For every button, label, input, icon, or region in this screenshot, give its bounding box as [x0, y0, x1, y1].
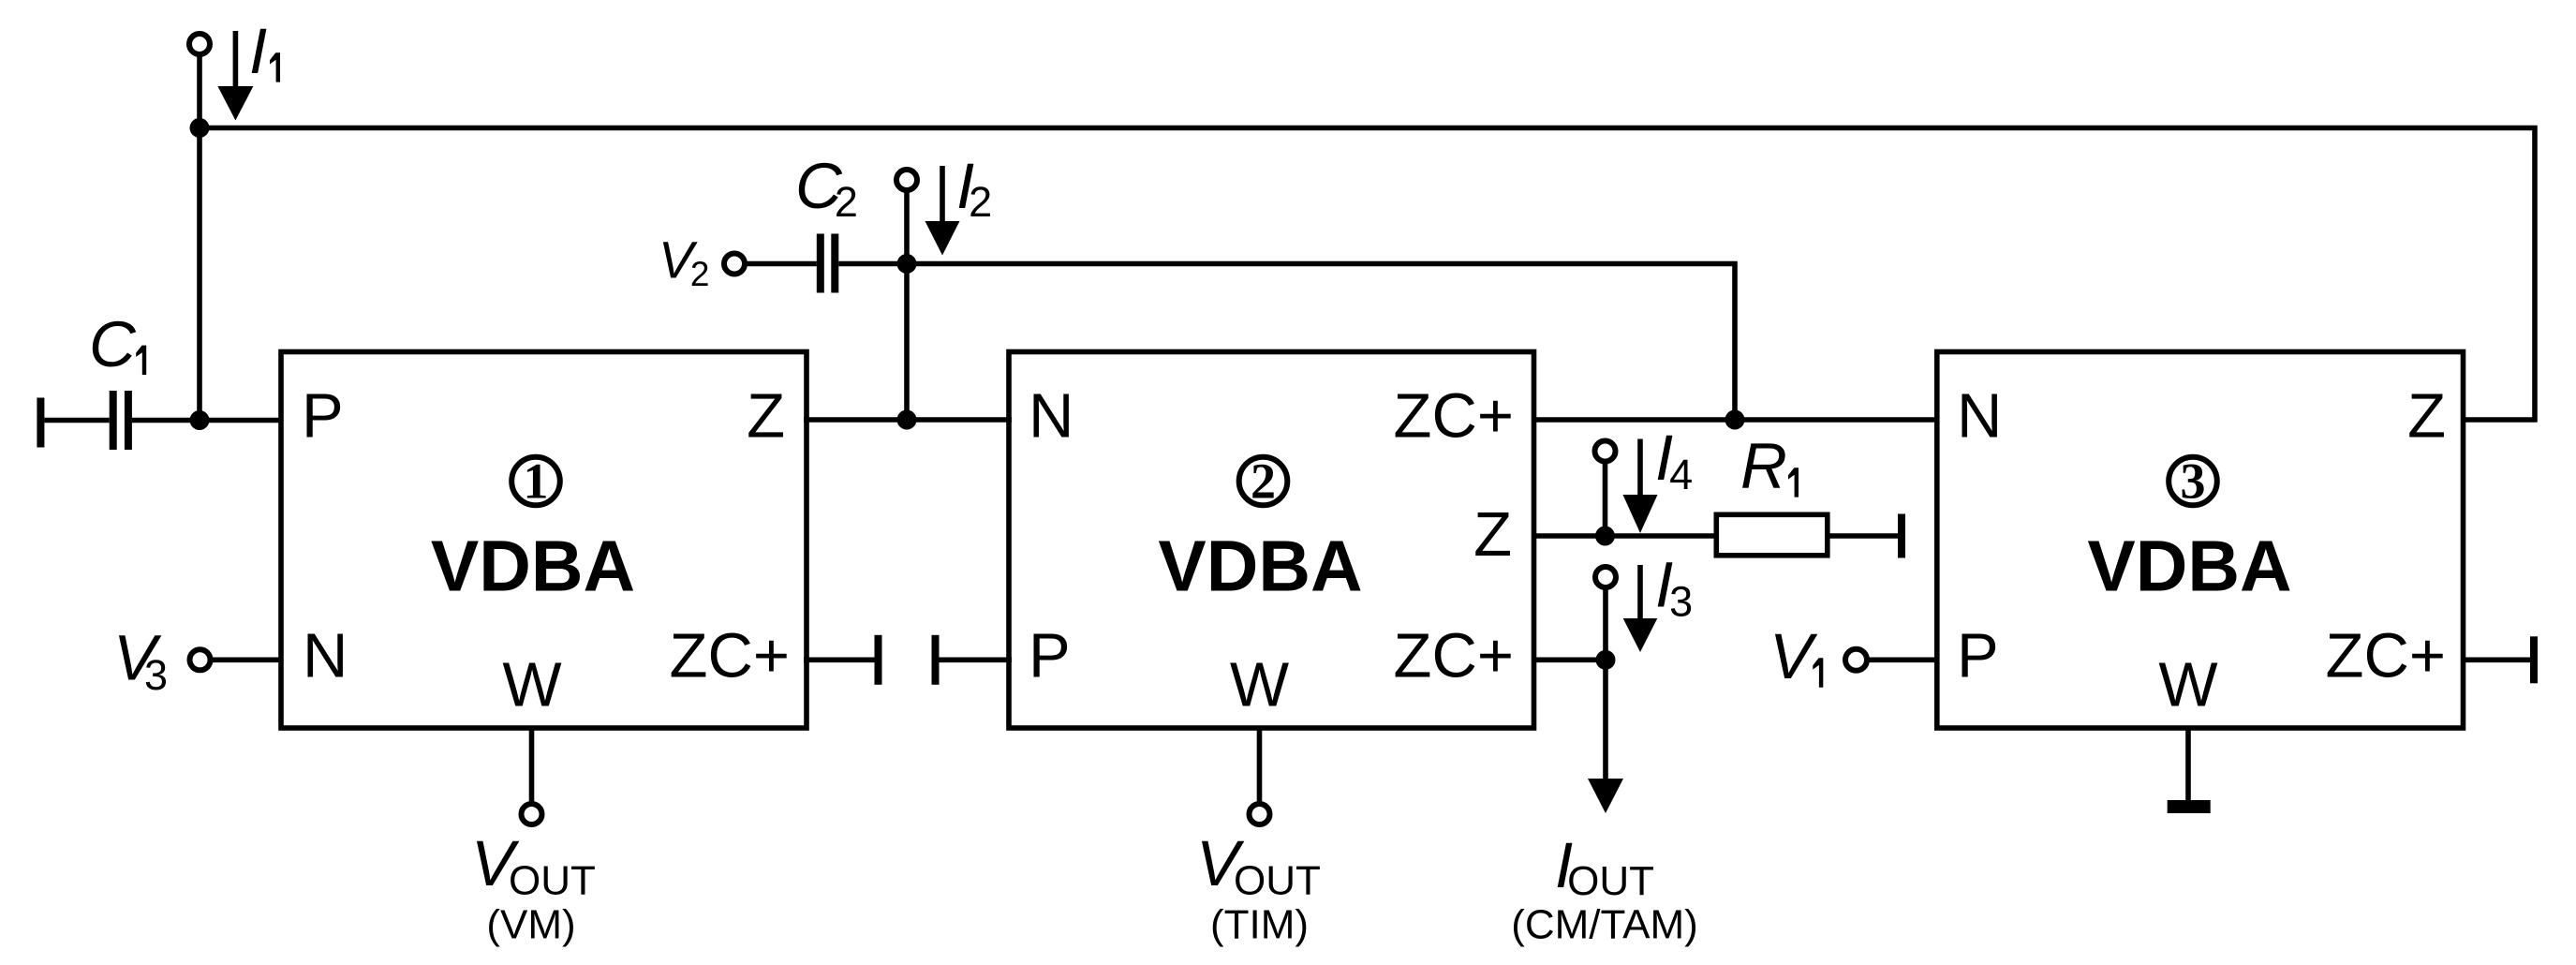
- circled number 1 U1: [511, 457, 560, 506]
- wire W pin U3 down to ground: [2185, 728, 2191, 801]
- wire I3 terminal stub to node F: [1603, 587, 1608, 660]
- wire I1 terminal stub down to node A: [197, 54, 202, 420]
- arrowhead I3: [1623, 618, 1658, 652]
- svg-text:Z: Z: [1473, 499, 1512, 570]
- svg-text:VDBA: VDBA: [2087, 527, 2291, 607]
- svg-text:2: 2: [1251, 453, 1276, 510]
- wire W pin U1 down to VOUT terminal: [529, 728, 535, 802]
- junction node C at C2 rail: [897, 254, 917, 274]
- svg-text:W: W: [2158, 650, 2218, 720]
- wire V2 terminal to capacitor C2: [745, 261, 817, 267]
- svg-text:(CM/TAM): (CM/TAM): [1511, 902, 1698, 948]
- wire Z pin U1 to N pin U2: [804, 417, 1012, 423]
- resistor R1 body: [1716, 514, 1828, 556]
- terminal circle I1: [189, 34, 210, 54]
- svg-text:N: N: [303, 621, 348, 691]
- terminal circle I4: [1595, 441, 1616, 462]
- wire ZC+ pin U1 to terminal bar: [804, 657, 875, 662]
- VDBA box U1: [281, 352, 807, 729]
- svg-text:VDBA: VDBA: [431, 527, 635, 607]
- capacitor C1 plates: [110, 391, 117, 450]
- junction node F on ZC+2b wire: [1596, 650, 1616, 670]
- svg-text:VDBA: VDBA: [1158, 527, 1362, 607]
- wire Z pin U2 to resistor R1: [1532, 533, 1714, 539]
- terminal circle I3: [1595, 567, 1616, 587]
- svg-text:N: N: [1029, 381, 1073, 452]
- VDBA box U2: [1009, 352, 1534, 729]
- wire I4 terminal stub to node E: [1603, 461, 1608, 536]
- VDBA box U3: [1937, 352, 2464, 729]
- terminal bar right of ZC+ U3: [2530, 636, 2538, 683]
- wire capacitor C1 to P pin of U1: [132, 418, 283, 423]
- svg-text:P: P: [1957, 621, 1999, 691]
- wire I2 terminal down to node B on Z1-N2 wire: [904, 190, 910, 420]
- terminal circle VOUT VM: [522, 804, 542, 824]
- svg-text:N: N: [1957, 381, 2002, 452]
- arrowhead I4: [1623, 495, 1658, 533]
- svg-text:C: C: [89, 308, 137, 380]
- arrowhead I1: [217, 86, 253, 121]
- arrowhead IOUT: [1588, 779, 1623, 813]
- svg-text:(TIM): (TIM): [1210, 902, 1309, 948]
- svg-text:ZC+: ZC+: [1394, 381, 1514, 452]
- arrow line I2: [940, 166, 945, 224]
- svg-text:(VM): (VM): [486, 902, 575, 948]
- svg-text:ZC+: ZC+: [1394, 621, 1514, 691]
- terminal circle I2: [896, 170, 917, 190]
- circled number 3 U3: [2169, 457, 2217, 506]
- svg-text:P: P: [302, 381, 344, 452]
- capacitor C2 plates: [817, 234, 824, 293]
- wire ZC+ bottom pin U2 to node F: [1532, 657, 1606, 662]
- terminal circle V2: [724, 254, 745, 275]
- arrow line I1: [233, 31, 239, 89]
- terminal bar right of ZC+ U1: [875, 635, 882, 685]
- terminal circle V3: [190, 649, 211, 670]
- svg-text:3: 3: [2181, 453, 2206, 510]
- arrowhead I2: [925, 221, 960, 256]
- wire W pin U2 down to VOUT terminal: [1257, 728, 1263, 802]
- circled number 2 U2: [1239, 457, 1288, 506]
- wire node F down to IOUT arrow: [1603, 660, 1608, 781]
- svg-text:ZC+: ZC+: [670, 621, 790, 691]
- svg-text:P: P: [1029, 621, 1071, 691]
- wire top rail from node A to Z pin of U3: [200, 128, 2535, 421]
- svg-text:W: W: [1230, 650, 1290, 720]
- terminal bar right of R1: [1898, 514, 1905, 558]
- svg-text:Z: Z: [2407, 381, 2446, 452]
- svg-text:1: 1: [524, 453, 549, 510]
- junction node A: [190, 118, 210, 138]
- wire V3 terminal to N pin U1: [210, 657, 283, 662]
- wire terminal bar to P pin U2: [940, 657, 1013, 662]
- wire capacitor C2 to node C, then right and down to node D: [838, 264, 1735, 418]
- wire resistor R1 to right terminal: [1830, 533, 1899, 539]
- wire ZC+ pin U2 to N pin U3: [1532, 417, 1939, 423]
- wire C1 terminal to capacitor: [44, 418, 109, 423]
- terminal bar left of P U2: [932, 635, 940, 685]
- terminal circle VOUT TIM: [1250, 804, 1270, 824]
- svg-text:W: W: [502, 650, 562, 720]
- wire V1 terminal to P pin U3: [1866, 657, 1939, 662]
- junction node B on Z1 wire: [897, 410, 917, 430]
- svg-text:ZC+: ZC+: [2326, 621, 2446, 691]
- arrow line I4: [1637, 439, 1643, 498]
- ground bar below W U3: [2168, 800, 2211, 813]
- junction node E on Z2 wire: [1595, 527, 1615, 546]
- svg-text:V: V: [1769, 620, 1818, 692]
- svg-text:I: I: [249, 15, 267, 87]
- svg-text:Z: Z: [747, 381, 785, 452]
- arrow line I3: [1637, 565, 1643, 621]
- svg-text:R: R: [1740, 430, 1787, 502]
- junction node D on ZC+2 wire: [1725, 410, 1745, 430]
- terminal circle V1: [1845, 649, 1867, 671]
- junction node at C1/P1: [190, 410, 210, 430]
- terminal bar left of C1: [37, 398, 44, 448]
- wire ZC+ pin U3 to terminal bar: [2461, 657, 2530, 662]
